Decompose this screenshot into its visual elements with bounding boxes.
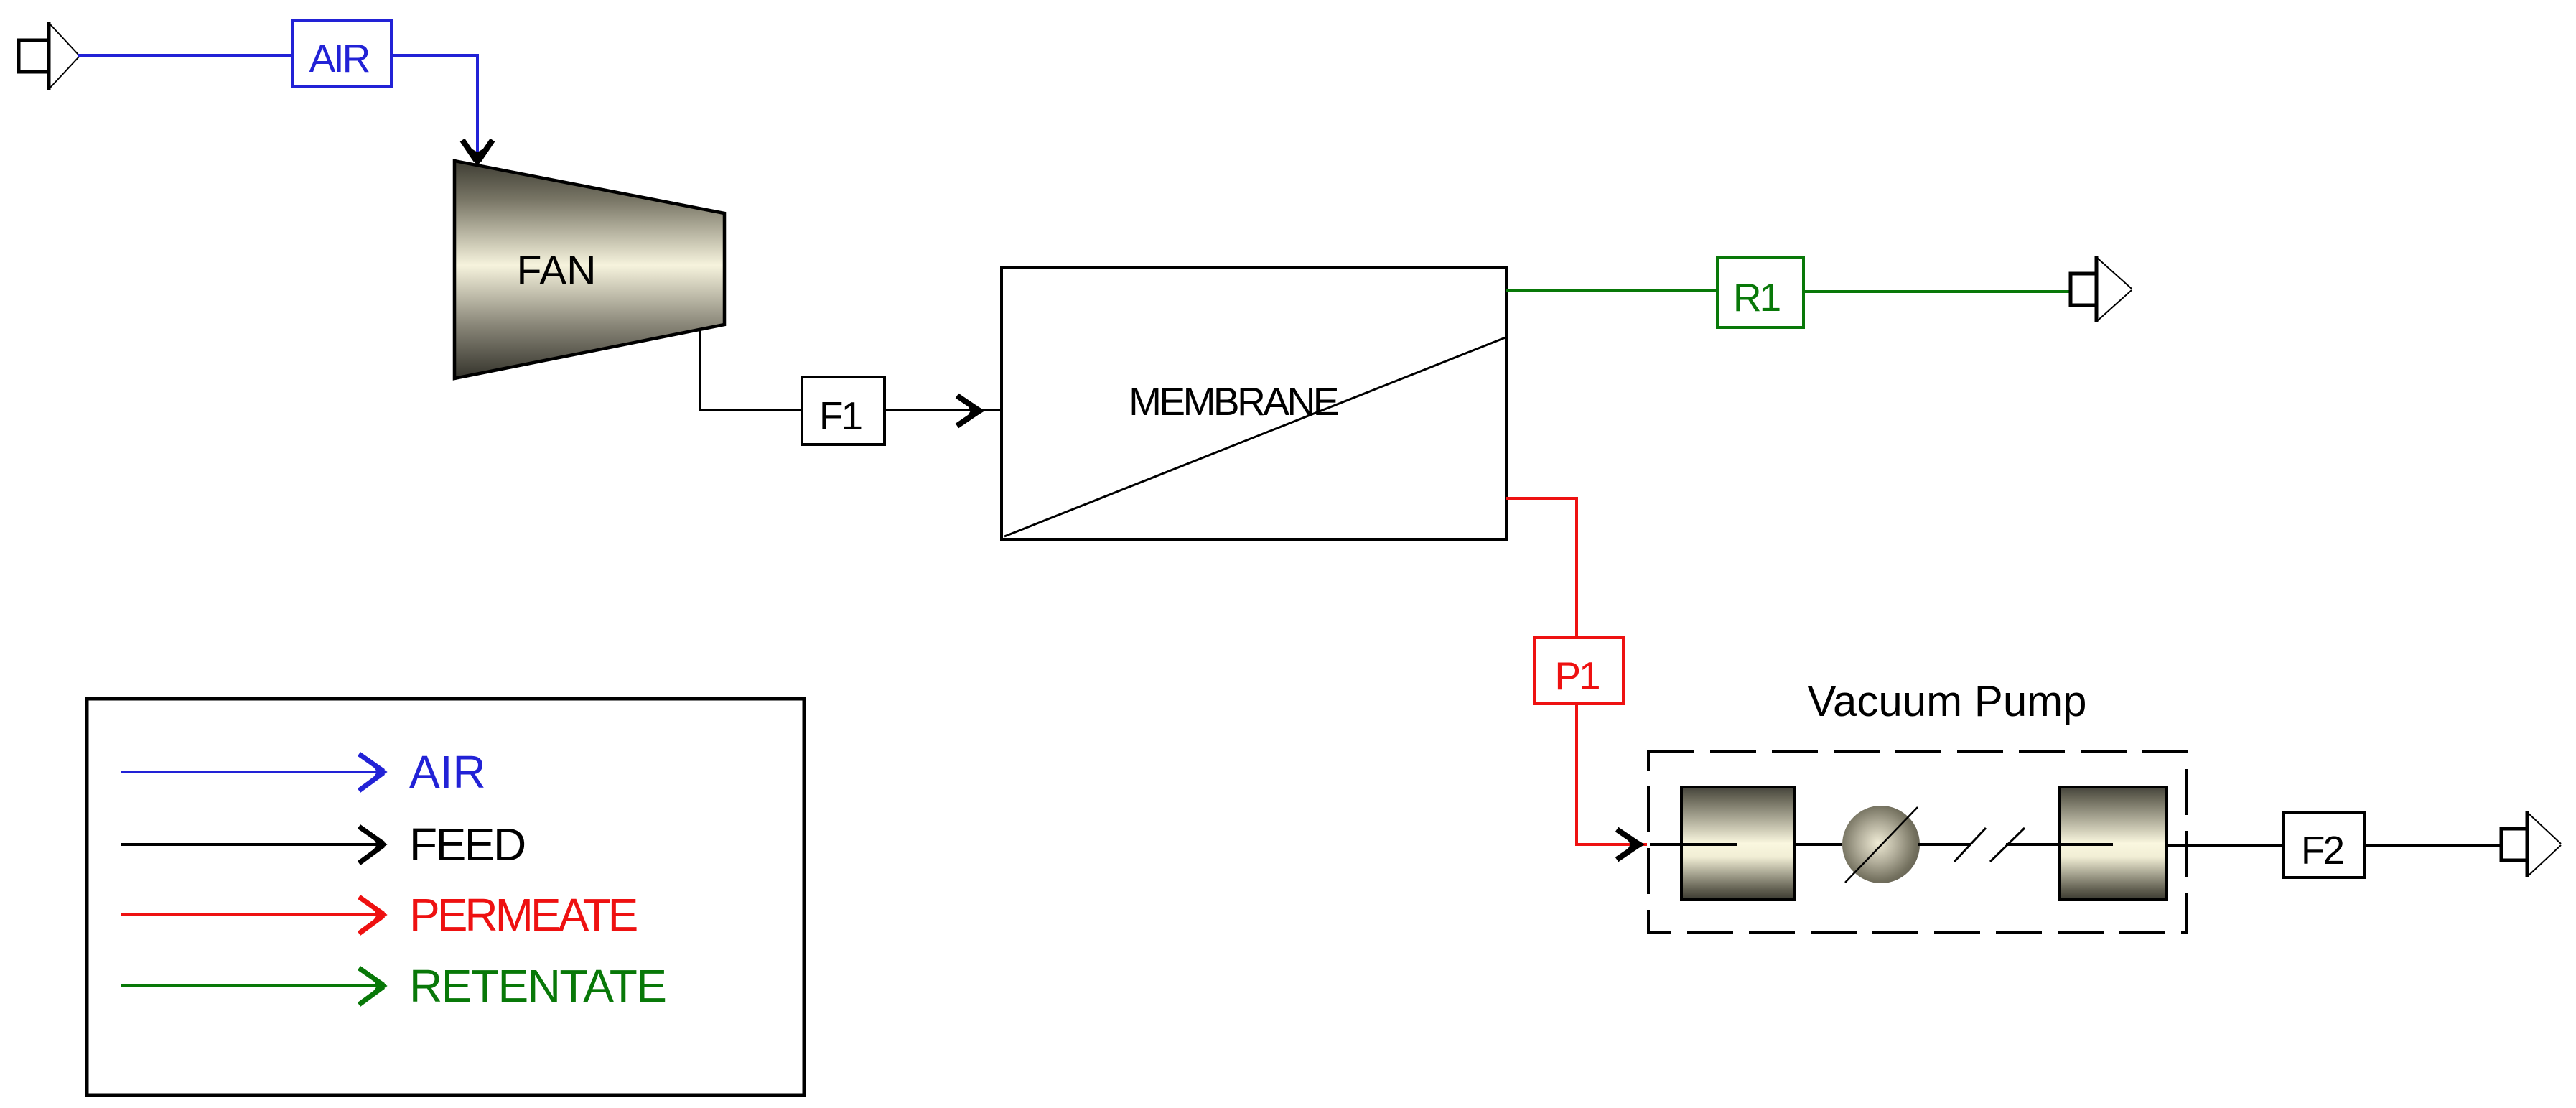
- svg-text:RETENTATE: RETENTATE: [409, 960, 666, 1012]
- wire: stream F1 from fan outlet to F1 label: [700, 329, 802, 410]
- wire: stream AIR from label to fan inlet: [391, 55, 477, 157]
- pump stage 2 cylinder: [2059, 787, 2167, 900]
- outlet block arrow (permeate out): [2501, 811, 2561, 877]
- fan FAN: [454, 161, 724, 378]
- svg-text:P1: P1: [1554, 653, 1599, 698]
- svg-text:PERMEATE: PERMEATE: [409, 889, 637, 941]
- stream label box P1: [1534, 638, 1623, 704]
- legend RETENTATE arrowhead: [359, 968, 386, 1005]
- wire: stream AIR from inlet arrow to AIR label: [78, 54, 294, 57]
- wire: stream F2 from pump to F2 label: [2167, 844, 2283, 847]
- vacuum pump dashed enclosure: [1648, 752, 2187, 933]
- outlet block arrow (retentate): [2071, 256, 2132, 322]
- legend box: [87, 699, 804, 1095]
- legend AIR line: [121, 771, 384, 773]
- svg-text:Vacuum Pump: Vacuum Pump: [1807, 677, 2086, 725]
- membrane unit block: [1002, 267, 1506, 539]
- stream label box R1: [1717, 257, 1803, 327]
- svg-text:AIR: AIR: [309, 36, 370, 80]
- pump shaft into stage 1: [1650, 843, 1737, 846]
- svg-text:FAN: FAN: [517, 248, 597, 294]
- legend FEED arrowhead: [359, 827, 386, 863]
- legend FEED line: [121, 843, 384, 846]
- arrowhead into fan: [462, 140, 493, 165]
- wire: stream R1 from label to outlet arrow: [1803, 290, 2071, 293]
- stream label box F2: [2283, 813, 2365, 877]
- legend RETENTATE line: [121, 984, 384, 987]
- shaft coupling slash 2: [1990, 828, 2025, 862]
- arrowhead into membrane: [957, 396, 984, 426]
- ball diagonal slash: [1845, 807, 1918, 883]
- stream label box F1: [802, 377, 885, 444]
- wire: stream P1 from membrane to P1 label: [1506, 498, 1577, 638]
- stream label box AIR: [292, 20, 391, 86]
- legend PERMEATE line: [121, 913, 384, 916]
- shaft coupling slash 1: [1954, 828, 1986, 862]
- wire: stream F2 from label to outlet arrow: [2365, 844, 2501, 847]
- wire: stream R1 from membrane to R1 label: [1506, 289, 1717, 292]
- pump ball element: [1842, 806, 1920, 883]
- legend AIR arrowhead: [359, 754, 386, 791]
- svg-text:R1: R1: [1733, 275, 1780, 320]
- pump shaft from ball into stage 2: [1918, 843, 1971, 846]
- svg-text:F1: F1: [819, 394, 862, 438]
- arrowhead into vacuum pump: [1617, 829, 1643, 860]
- svg-text:AIR: AIR: [409, 746, 486, 798]
- wire: stream P1 from label to vacuum pump: [1577, 704, 1647, 844]
- pump stage 1 cylinder: [1681, 787, 1794, 900]
- svg-text:FEED: FEED: [409, 819, 525, 870]
- membrane internal diagonal: [1004, 337, 1506, 536]
- legend PERMEATE arrowhead: [359, 897, 386, 934]
- wire: stream F1 from label to membrane: [885, 409, 1002, 411]
- svg-text:MEMBRANE: MEMBRANE: [1129, 379, 1338, 424]
- pump shaft between stage 1 and ball: [1794, 843, 1842, 846]
- svg-text:F2: F2: [2301, 828, 2343, 872]
- inlet block arrow (air source): [19, 22, 79, 90]
